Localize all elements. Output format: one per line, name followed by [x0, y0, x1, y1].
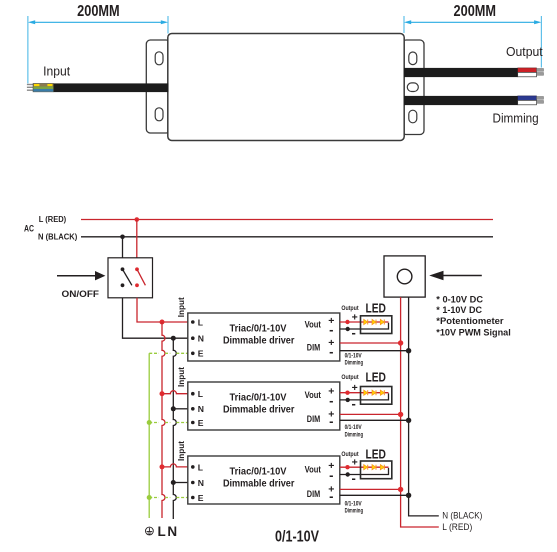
wire DIM- U2 [340, 419, 409, 421]
wire black bus to row3 N [173, 482, 188, 484]
svg-text:Vout: Vout [305, 465, 322, 476]
LED3.2 diode [372, 465, 376, 470]
ground symbol [146, 527, 154, 535]
terminal E U2 [191, 421, 195, 425]
right flange hole middle [407, 83, 418, 92]
terminal E U1 [191, 352, 195, 356]
svg-text:-: - [329, 468, 333, 483]
left flange hole bottom [155, 108, 163, 121]
svg-text:DIM: DIM [307, 414, 320, 425]
wire Vout- U3 return [340, 468, 389, 475]
svg-text:Dimmable driver: Dimmable driver [223, 335, 295, 346]
driver U3 box [188, 456, 340, 504]
svg-text:Triac/0/1-10V: Triac/0/1-10V [230, 323, 287, 334]
switch pole red [135, 267, 139, 271]
wire DIM+ U1 [340, 342, 401, 344]
wire switch to row1 N [123, 298, 188, 338]
left flange hole top [155, 52, 163, 65]
svg-text:Triac/0/1-10V: Triac/0/1-10V [230, 392, 287, 403]
svg-text:Output: Output [341, 305, 359, 312]
svg-text:+: + [352, 382, 358, 394]
arrow to dimmer [443, 275, 482, 277]
dimming cable [404, 96, 518, 105]
arrow to switch [57, 275, 96, 277]
svg-text:Output: Output [341, 374, 359, 381]
wire DIM+ U3 [340, 488, 401, 490]
input cable stripped wires [27, 83, 54, 92]
svg-text:Dimming: Dimming [493, 111, 539, 126]
wire Vout- U2 return [340, 393, 389, 400]
svg-text:*10V PWM Signal: *10V PWM Signal [436, 328, 511, 339]
svg-text:Input: Input [43, 64, 70, 79]
driver U1 box [188, 313, 340, 361]
svg-text:AC: AC [24, 223, 34, 233]
right mounting flange [402, 40, 424, 135]
terminal L U1 [191, 320, 195, 324]
svg-text:-: - [352, 325, 356, 340]
dim bus red vertical [401, 297, 439, 527]
switch box ON/OFF [108, 258, 153, 298]
svg-text:Vout: Vout [305, 320, 322, 331]
svg-text:-: - [329, 488, 333, 503]
svg-text:-: - [352, 471, 356, 486]
driver body [168, 34, 404, 141]
svg-text:-: - [329, 322, 333, 337]
wire DIM- U3 [340, 494, 409, 496]
output wire white [518, 72, 537, 76]
svg-text:200MM: 200MM [77, 3, 120, 20]
svg-text:N: N [198, 334, 204, 344]
wire Vout+ U3 to LED3 [340, 466, 389, 468]
node red bus row3 [160, 464, 165, 469]
node black bus row1 [171, 336, 176, 341]
svg-text:E: E [198, 349, 204, 359]
wire red bus to row2 L [162, 391, 188, 394]
AC line L [81, 219, 493, 221]
wire black bus to row2 N [173, 408, 188, 410]
svg-text:E: E [198, 418, 204, 428]
wire Vout+ U2 to LED2 [340, 392, 389, 394]
LED3.3 diode [380, 465, 384, 470]
svg-text:DIM: DIM [307, 489, 320, 500]
output cable [404, 68, 518, 77]
svg-text:0/1-10V: 0/1-10V [345, 424, 363, 431]
terminal L U3 [191, 465, 195, 469]
driver U2 box [188, 382, 340, 430]
wire Vout- U1 return [340, 323, 389, 329]
LED2.3 diode [380, 390, 384, 395]
wire green row1 E dashed [149, 352, 188, 354]
node red bus row2 [160, 391, 165, 396]
node red bus row1 [160, 320, 165, 325]
dimmer box [384, 256, 425, 297]
svg-text:*Potentiometer: *Potentiometer [436, 316, 504, 327]
terminal N U1 [191, 336, 195, 340]
AC line N [81, 236, 493, 238]
wire green row3 E dashed [149, 497, 188, 499]
wire green row2 E dashed [149, 422, 188, 424]
svg-text:LED: LED [365, 448, 386, 462]
node green bus row3 [147, 495, 152, 500]
input cable [54, 83, 169, 92]
svg-text:L: L [198, 462, 203, 472]
wire DIM- U1 [340, 350, 409, 352]
LED3 module box [361, 461, 392, 479]
dim bus black vertical [409, 297, 439, 516]
terminal L U2 [191, 392, 195, 396]
svg-text:+: + [352, 457, 358, 469]
right flange hole bottom [409, 110, 417, 123]
svg-text:* 0-10V DC: * 0-10V DC [436, 294, 483, 305]
dimming wire tips [537, 97, 544, 100]
svg-text:Dimmable driver: Dimmable driver [223, 478, 295, 489]
svg-text:* 1-10V DC: * 1-10V DC [436, 305, 482, 316]
node black bus row3 [171, 480, 176, 485]
svg-text:-: - [329, 344, 333, 359]
svg-text:200MM: 200MM [454, 3, 497, 20]
svg-text:Input: Input [176, 441, 186, 461]
LED2.2 diode [372, 390, 376, 395]
LED2 module box [361, 387, 392, 405]
output wire tips [537, 69, 544, 72]
output wire red [518, 68, 537, 73]
svg-text:ON/OFF: ON/OFF [62, 289, 100, 300]
svg-text:-: - [329, 413, 333, 428]
wire red bus to row3 L [162, 464, 188, 467]
LED1 module box [361, 316, 392, 334]
svg-text:L: L [157, 524, 165, 539]
LED1.1 diode [364, 319, 368, 324]
dimension line right [404, 16, 542, 68]
svg-text:Dimmable driver: Dimmable driver [223, 404, 295, 415]
LED3.1 diode [364, 465, 368, 470]
svg-text:Output: Output [341, 451, 359, 458]
wire DIM+ U2 [340, 413, 401, 415]
wire Vout+ U1 to LED1 [340, 321, 389, 323]
wire N to switch [122, 237, 124, 258]
right flange hole top [409, 52, 417, 65]
node L junction [135, 217, 140, 222]
svg-text:Vout: Vout [305, 390, 322, 401]
black bus vertical [173, 338, 176, 519]
node N junction [120, 235, 125, 240]
left mounting flange [146, 40, 170, 133]
terminal N U3 [191, 481, 195, 485]
dimension line left [28, 16, 168, 83]
node black bus row2 [171, 406, 176, 411]
terminal E U3 [191, 496, 195, 500]
svg-text:N (BLACK): N (BLACK) [442, 510, 482, 521]
switch pole black [121, 267, 125, 271]
svg-text:N: N [198, 478, 204, 488]
node green bus row2 [147, 420, 152, 425]
dimming wire blue [518, 96, 537, 101]
svg-text:0/1-10V: 0/1-10V [275, 529, 319, 546]
svg-text:Triac/0/1-10V: Triac/0/1-10V [230, 466, 287, 477]
svg-text:L: L [198, 317, 203, 327]
terminal N U2 [191, 407, 195, 411]
svg-text:Dimming: Dimming [345, 431, 364, 438]
dimming wire white [518, 100, 537, 104]
red bus vertical [162, 322, 165, 518]
svg-text:-: - [352, 396, 356, 411]
svg-text:-: - [329, 393, 333, 408]
svg-text:LED: LED [365, 301, 386, 315]
wire switch to row1 L [137, 298, 188, 322]
svg-text:Dimming: Dimming [345, 507, 364, 514]
svg-text:Output: Output [506, 44, 543, 59]
svg-text:Dimming: Dimming [345, 359, 364, 366]
svg-text:N: N [167, 524, 177, 539]
LED2.1 diode [364, 390, 368, 395]
wire L to switch [136, 220, 138, 259]
LED1.3 diode [380, 319, 384, 324]
svg-text:LED: LED [365, 371, 386, 385]
svg-text:E: E [198, 493, 204, 503]
LED1.2 diode [372, 319, 376, 324]
svg-text:L (RED): L (RED) [39, 215, 67, 224]
svg-text:Input: Input [176, 297, 186, 317]
dimmer knob [397, 269, 412, 284]
svg-text:Input: Input [176, 367, 186, 387]
green bus vertical [148, 353, 150, 518]
svg-text:+: + [352, 311, 358, 323]
svg-text:L: L [198, 389, 203, 399]
svg-text:L (RED): L (RED) [442, 522, 472, 533]
svg-text:N: N [198, 404, 204, 414]
svg-text:DIM: DIM [307, 343, 320, 354]
svg-text:N (BLACK): N (BLACK) [38, 233, 78, 242]
